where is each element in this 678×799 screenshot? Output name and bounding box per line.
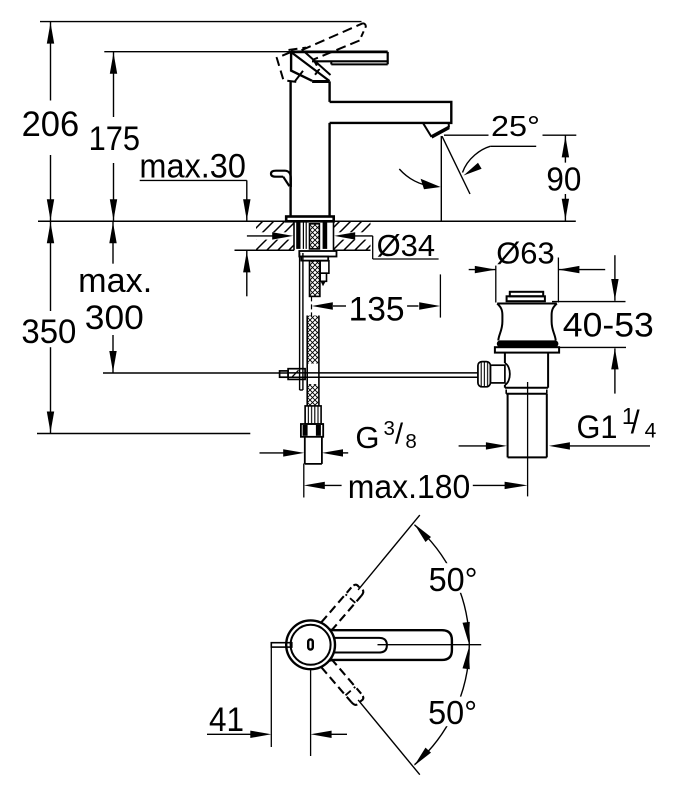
svg-text:max.180: max.180 [348, 469, 471, 506]
svg-text:Ø34: Ø34 [377, 228, 436, 263]
svg-text:25°: 25° [491, 111, 540, 143]
svg-text:41: 41 [209, 701, 244, 739]
svg-text:50°: 50° [428, 694, 477, 731]
svg-text:/: / [395, 418, 404, 450]
svg-text:G: G [355, 420, 379, 455]
svg-text:max.30: max.30 [139, 148, 246, 186]
svg-text:G1: G1 [577, 409, 618, 445]
svg-text:206: 206 [22, 105, 80, 144]
svg-text:/: / [631, 404, 640, 440]
svg-text:8: 8 [405, 430, 416, 453]
svg-text:175: 175 [89, 120, 140, 158]
svg-text:Ø63: Ø63 [496, 236, 555, 271]
svg-text:max.: max. [78, 262, 152, 300]
svg-text:90: 90 [546, 162, 581, 199]
svg-text:3: 3 [384, 417, 395, 440]
svg-text:50°: 50° [429, 561, 478, 598]
svg-text:350: 350 [21, 313, 76, 351]
svg-text:4: 4 [645, 419, 657, 442]
svg-text:300: 300 [85, 299, 144, 337]
svg-text:40-53: 40-53 [563, 307, 654, 345]
svg-text:135: 135 [349, 291, 405, 329]
